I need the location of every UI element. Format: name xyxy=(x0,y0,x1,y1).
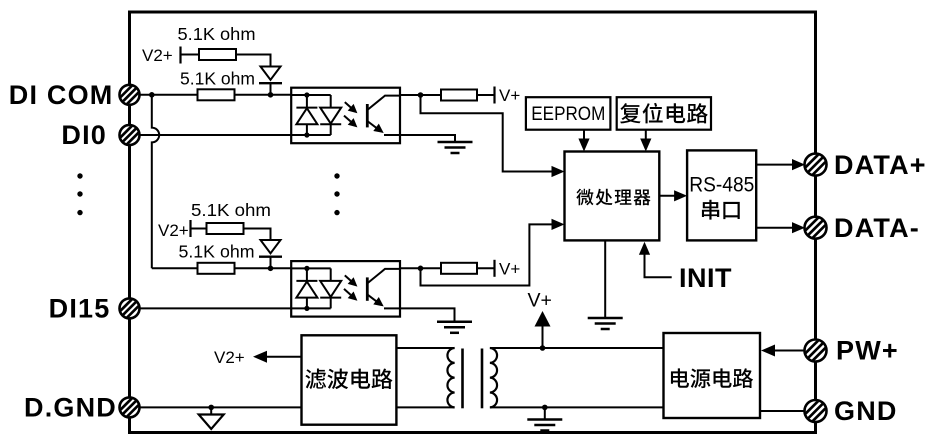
junction U1 collector node xyxy=(418,92,424,98)
ellipsis dots (repeated input channels) xyxy=(334,173,339,215)
arrow EEPROM into microprocessor xyxy=(578,139,589,152)
svg-text:DI COM: DI COM xyxy=(9,80,114,110)
svg-text:DATA+: DATA+ xyxy=(834,150,927,180)
junction U2 collector node xyxy=(418,266,424,272)
wire DI0 to optocoupler U1 cathode rail xyxy=(140,134,292,136)
svg-text:5.1K ohm: 5.1K ohm xyxy=(191,200,271,220)
svg-text:DATA-: DATA- xyxy=(834,213,920,243)
wire R6 to V+ xyxy=(477,267,494,269)
wire U2 output to microprocessor xyxy=(421,224,554,285)
wire filter to transformer primary bottom xyxy=(396,406,454,408)
wire U2 collector to R6 xyxy=(400,267,441,269)
arrow to V2+ supply xyxy=(253,351,267,363)
terminal DI0 (screw) xyxy=(119,125,140,146)
svg-text:PW+: PW+ xyxy=(836,336,899,366)
V+ supply tick (channel 1) xyxy=(493,87,495,104)
wire filter circuit to V2+ xyxy=(266,356,302,358)
svg-text:5.1K ohm: 5.1K ohm xyxy=(179,242,255,262)
arrow into DATA- xyxy=(792,222,805,233)
V+ supply tick (channel 16) xyxy=(493,260,495,277)
svg-text:5.1K ohm: 5.1K ohm xyxy=(180,69,255,89)
transformer T1 secondary winding xyxy=(490,348,497,407)
optocoupler U2 phototransistor xyxy=(367,269,400,309)
optocoupler U2 junction dots xyxy=(304,266,309,311)
junction D1 cathode on DI COM line xyxy=(268,92,274,98)
ground (microprocessor) xyxy=(588,318,623,329)
label 复位电路 (reset circuit) xyxy=(620,103,708,124)
wire R1 to diode D1 xyxy=(236,55,271,67)
resistor R2 5.1K xyxy=(198,89,235,100)
svg-text:D.GND: D.GND xyxy=(24,392,117,422)
terminal D.GND (screw) xyxy=(119,397,140,418)
arrow into microprocessor (channel 16 signal) xyxy=(552,219,565,230)
resistor R3 pull-up xyxy=(441,90,477,101)
junction V+ tap xyxy=(540,345,546,351)
junction secondary ground tap xyxy=(542,405,548,411)
diode D2 xyxy=(259,240,282,268)
label 滤波电路 (filter circuit) xyxy=(305,369,392,390)
microprocessor U5 box xyxy=(565,152,660,241)
terminal DI15 (screw) xyxy=(119,298,140,319)
optocoupler U1 light arrows xyxy=(345,102,351,108)
arrow into RS-485 xyxy=(674,190,687,201)
optocoupler U1 LED diode up xyxy=(296,108,317,125)
wire microprocessor to ground xyxy=(604,240,606,318)
optocoupler U1 junction dots xyxy=(304,92,309,137)
ground (power return) xyxy=(527,420,562,431)
optocoupler U1 LED input rails xyxy=(291,95,331,135)
junction D2 cathode on channel 16 line xyxy=(268,266,274,272)
wire RS-485 to DATA- xyxy=(756,227,795,229)
optocoupler U2 light arrows xyxy=(345,275,351,281)
EEPROM block xyxy=(526,97,611,130)
terminal PW+ (screw) xyxy=(804,339,827,362)
svg-text:V+: V+ xyxy=(499,260,520,279)
optocoupler U2 LED diode up xyxy=(296,281,317,298)
wire filter to transformer primary top xyxy=(396,347,454,349)
wire transformer secondary bottom to power circuit xyxy=(490,406,664,408)
wire transformer secondary top to power circuit xyxy=(490,347,664,349)
svg-text:INIT: INIT xyxy=(679,263,732,293)
label 微处理器 (microprocessor) xyxy=(576,189,650,206)
arrow into DATA+ xyxy=(792,159,805,170)
wire DI COM to optocoupler U1 xyxy=(140,94,292,96)
junction DI COM / channel bus xyxy=(149,92,155,98)
optocoupler U2 LED input rails xyxy=(291,268,331,308)
svg-text:V2+: V2+ xyxy=(214,348,245,367)
wire U1 output to microprocessor xyxy=(421,95,554,172)
wire V2+ tick to R1 xyxy=(181,54,200,56)
svg-text:V2+: V2+ xyxy=(142,46,173,65)
V2+ supply tick (top channel) xyxy=(179,47,181,64)
transformer T1 core xyxy=(463,349,483,409)
signal ground triangle (D.GND) xyxy=(210,407,212,414)
optocoupler U1 LED diode down xyxy=(320,108,341,125)
wire PW+ to power circuit xyxy=(774,350,805,352)
arrow V+ supply up xyxy=(535,311,551,327)
wire R4 to diode D2 xyxy=(244,229,271,241)
diode D1 xyxy=(259,67,282,95)
V2+ supply tick (bottom channel) xyxy=(189,220,191,237)
arrow reset into microprocessor xyxy=(640,139,651,152)
optocoupler U2 box xyxy=(291,261,400,317)
wire DI15 to optocoupler U2 cathode rail xyxy=(140,307,292,309)
svg-text:V2+: V2+ xyxy=(158,221,189,240)
wire DI COM down to channel 16 (hop over DI0) xyxy=(152,95,159,268)
module case border xyxy=(130,12,816,433)
svg-text:DI15: DI15 xyxy=(49,293,111,323)
wire microprocessor to RS-485 xyxy=(659,195,676,197)
wire RS-485 to DATA+ xyxy=(756,164,795,166)
label 串口 (serial port) xyxy=(702,200,740,220)
svg-text:GND: GND xyxy=(834,396,898,426)
wire channel 16 resistor rail to optocoupler U2 xyxy=(152,267,291,269)
wire U1 collector to R3 xyxy=(400,94,441,96)
reset circuit block xyxy=(617,97,711,130)
svg-text:RS-485: RS-485 xyxy=(689,174,754,197)
ellipsis dots (terminals DI1..DI14) xyxy=(77,173,82,215)
svg-text:V+: V+ xyxy=(528,290,552,312)
resistor R6 pull-up xyxy=(441,263,477,274)
RS-485 serial block xyxy=(687,150,756,240)
arrow into power circuit xyxy=(761,345,775,357)
power circuit block xyxy=(664,333,761,418)
svg-text:EEPROM: EEPROM xyxy=(531,103,605,125)
label 电源电路 (power circuit) xyxy=(671,368,753,388)
resistor R1 5.1K xyxy=(199,49,236,60)
resistor R4 5.1K xyxy=(207,223,244,234)
wire D.GND to filter circuit xyxy=(140,406,302,408)
optocoupler U2 LED diode down xyxy=(320,281,341,298)
wire reset circuit to microprocessor xyxy=(645,130,647,140)
wire U1 emitter to ground xyxy=(400,135,455,142)
svg-text:DI0: DI0 xyxy=(61,120,107,150)
svg-text:5.1K ohm: 5.1K ohm xyxy=(178,24,256,44)
filter circuit block xyxy=(302,335,397,424)
wire EEPROM to microprocessor xyxy=(583,130,585,140)
resistor R5 5.1K xyxy=(198,263,235,274)
ground (U1 emitter) xyxy=(438,142,473,153)
wire V+ riser xyxy=(542,326,544,348)
terminal GND (screw) xyxy=(804,400,827,423)
ground (U2 emitter) xyxy=(437,322,472,333)
wire U2 emitter to ground xyxy=(400,308,455,321)
wire R3 to V+ xyxy=(477,94,494,96)
svg-text:V+: V+ xyxy=(499,86,520,105)
wire power circuit to GND xyxy=(760,410,805,412)
terminal DATA+ (screw) xyxy=(804,153,827,176)
terminal DI COM (screw) xyxy=(119,84,140,105)
optocoupler U1 phototransistor xyxy=(367,96,400,135)
optocoupler U1 box xyxy=(291,88,400,144)
junction D.GND / signal ground xyxy=(208,405,214,411)
wire secondary to ground xyxy=(544,407,546,419)
terminal DATA- (screw) xyxy=(804,216,827,239)
arrow into microprocessor (channel 1 signal) xyxy=(552,166,565,177)
transformer T1 primary winding xyxy=(447,348,454,407)
wire V2+ tick to R4 xyxy=(191,228,207,230)
wire INIT to microprocessor xyxy=(645,254,672,277)
